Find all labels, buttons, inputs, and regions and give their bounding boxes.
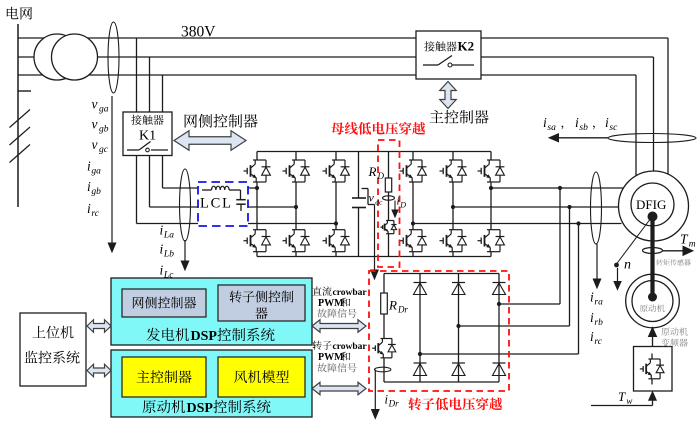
svg-text:Lb: Lb xyxy=(163,250,174,260)
svg-text:n: n xyxy=(624,258,631,273)
svg-text:i: i xyxy=(590,290,594,305)
svg-text:v: v xyxy=(369,191,375,205)
svg-text:gb: gb xyxy=(99,125,109,135)
svg-text:DSP: DSP xyxy=(191,329,218,344)
svg-text:D: D xyxy=(376,171,384,181)
svg-text:DSP: DSP xyxy=(187,401,214,416)
svg-text:i: i xyxy=(160,242,164,257)
svg-text:R: R xyxy=(388,298,397,313)
svg-text:rb: rb xyxy=(594,318,603,328)
svg-text:i: i xyxy=(575,115,579,130)
svg-text:dc: dc xyxy=(375,198,383,207)
svg-text:v: v xyxy=(92,97,98,112)
svg-text:Dr: Dr xyxy=(397,305,408,315)
svg-text:crowbar: crowbar xyxy=(333,342,368,352)
svg-text:i: i xyxy=(590,329,594,344)
svg-text:ga: ga xyxy=(99,105,109,115)
svg-text:380V: 380V xyxy=(181,24,216,41)
svg-text:sa: sa xyxy=(547,123,556,133)
svg-text:gc: gc xyxy=(99,145,109,155)
svg-text:i: i xyxy=(160,223,164,238)
svg-text:gb: gb xyxy=(91,187,101,197)
svg-text:i: i xyxy=(543,115,547,130)
svg-text:w: w xyxy=(626,396,632,406)
svg-text:La: La xyxy=(163,231,174,241)
svg-text:ra: ra xyxy=(594,298,603,308)
svg-text:i: i xyxy=(605,115,609,130)
svg-text:K1: K1 xyxy=(139,129,156,144)
svg-text:R: R xyxy=(368,164,377,179)
svg-text:crowbar: crowbar xyxy=(333,288,368,298)
svg-text:PWM: PWM xyxy=(318,298,344,309)
svg-text:i: i xyxy=(160,263,164,278)
svg-text:rc: rc xyxy=(594,337,602,347)
svg-text:i: i xyxy=(590,310,594,325)
svg-text:v: v xyxy=(92,117,98,132)
svg-text:i: i xyxy=(87,201,91,216)
svg-text:Lc: Lc xyxy=(163,271,174,281)
svg-text:sb: sb xyxy=(579,123,588,133)
svg-text:DFIG: DFIG xyxy=(636,197,666,212)
svg-text:D: D xyxy=(399,201,406,210)
svg-text:m: m xyxy=(689,240,696,250)
svg-text:Dr: Dr xyxy=(388,399,399,409)
svg-text:v: v xyxy=(92,137,98,152)
svg-text:LCL: LCL xyxy=(200,196,233,212)
svg-text:i: i xyxy=(397,196,400,208)
svg-text:K2: K2 xyxy=(458,39,475,54)
svg-text:sc: sc xyxy=(609,123,618,133)
svg-text:T: T xyxy=(618,389,626,404)
svg-text:i: i xyxy=(87,179,91,194)
svg-text:rc: rc xyxy=(91,209,99,219)
svg-text:i: i xyxy=(87,159,91,174)
svg-text:ga: ga xyxy=(91,167,101,177)
svg-text:PWM: PWM xyxy=(318,352,344,363)
